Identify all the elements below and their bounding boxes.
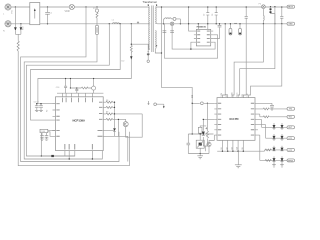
svg-text:Transformer: Transformer [143,0,158,4]
svg-text:VDR: VDR [65,10,70,13]
svg-text:IC3 PD: IC3 PD [230,117,239,121]
svg-text:C1: C1 [50,13,52,15]
svg-text:L1: L1 [112,20,114,22]
svg-text:G5: G5 [242,147,244,150]
svg-text:RV2: RV2 [23,26,25,30]
svg-text:R9: R9 [106,112,108,114]
svg-text:CC2: CC2 [288,150,292,152]
svg-text:C6 C7: C6 C7 [34,101,39,103]
svg-text:CON: CON [41,131,46,133]
svg-text:SW: SW [247,93,249,96]
svg-text:VDD: VDD [231,92,233,97]
svg-text:SCL: SCL [289,117,293,119]
svg-text:VCC: VCC [237,92,239,97]
svg-text:C8: C8 [212,14,214,16]
svg-text:G1: G1 [221,147,223,150]
svg-text:GND: GND [288,24,293,26]
svg-text:VBUS: VBUS [288,7,294,9]
svg-text:C16: C16 [56,87,59,89]
svg-text:G4: G4 [237,147,239,150]
svg-text:CC1: CC1 [288,138,292,140]
svg-text:R8: R8 [106,100,108,102]
svg-text:G3: G3 [232,147,234,150]
svg-text:G2: G2 [226,147,228,150]
svg-text:NCP1399: NCP1399 [73,118,86,122]
svg-text:R2: R2 [47,110,49,112]
svg-text:C9: C9 [203,14,205,16]
svg-text:RV1: RV1 [12,10,14,14]
svg-text:VSNS: VSNS [288,160,294,162]
